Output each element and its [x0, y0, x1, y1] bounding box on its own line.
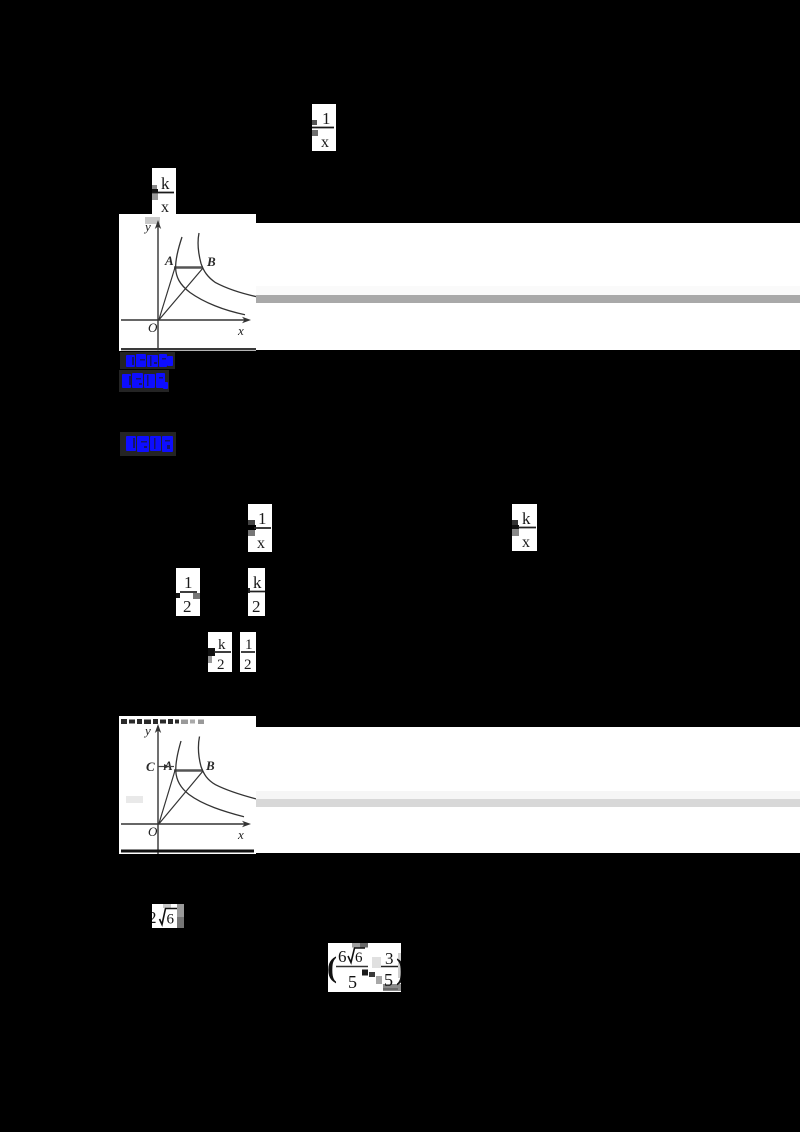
- svg-text:x: x: [237, 827, 244, 842]
- faint scan smudge: [126, 796, 143, 803]
- formula patch =1/x (middle): [248, 504, 272, 552]
- svg-text:B: B: [205, 758, 215, 773]
- gray scan mark top-left: [145, 217, 160, 224]
- segment AB: [174, 266, 203, 268]
- svg-text:x: x: [237, 323, 244, 338]
- svg-text:1: 1: [245, 637, 253, 653]
- svg-text:B: B: [206, 254, 216, 269]
- formula patch =k/x (upper-left): [152, 168, 176, 216]
- formula patch (6√6/5, 3/5): [328, 943, 401, 992]
- figure 2: graph with points A, B, C: [119, 716, 256, 854]
- svg-text:x: x: [257, 535, 265, 552]
- svg-text:A: A: [164, 253, 174, 268]
- line OB: [159, 268, 203, 320]
- line OA: [159, 268, 175, 321]
- blue line 3: [120, 432, 176, 456]
- formula patch =1/x (top): [312, 104, 336, 151]
- svg-text:x: x: [522, 534, 530, 551]
- svg-text:O: O: [148, 320, 158, 335]
- y-axis: [157, 223, 159, 351]
- segment CA: [158, 766, 174, 768]
- svg-text:6: 6: [355, 950, 363, 966]
- y-axis: [157, 727, 159, 854]
- figure bottom rule: [121, 348, 256, 350]
- figure 2 white strip (right of graph): [256, 727, 800, 853]
- gray band 2: [256, 799, 800, 807]
- svg-text:3: 3: [385, 949, 394, 968]
- line OA: [159, 771, 175, 825]
- svg-text:x: x: [321, 134, 329, 151]
- svg-text:1: 1: [184, 573, 193, 592]
- blue line 1: [120, 352, 175, 369]
- svg-text:5: 5: [348, 972, 357, 992]
- svg-text:2: 2: [217, 657, 225, 672]
- svg-text:6: 6: [338, 947, 347, 966]
- line OB: [159, 771, 203, 824]
- formula patch 1/2 (lower): [240, 632, 256, 672]
- hyperbola through B: [198, 737, 256, 799]
- formula patch 2√6: [152, 904, 184, 928]
- x-axis: [121, 319, 248, 321]
- blue line 2: [119, 370, 169, 392]
- svg-text:2: 2: [152, 908, 157, 927]
- svg-text:y: y: [143, 723, 151, 738]
- svg-text:2: 2: [183, 597, 192, 616]
- svg-text:2: 2: [252, 597, 261, 616]
- svg-text:y: y: [143, 219, 151, 234]
- figure 1: graph with hyperbolas, points A and B: [119, 214, 256, 351]
- formula patch k/2: [248, 568, 265, 616]
- small arrow mark near A: [164, 764, 169, 769]
- svg-text:): ): [396, 953, 401, 986]
- hyperbola through A: [176, 237, 245, 315]
- svg-text:k: k: [218, 637, 226, 653]
- segment AB: [174, 769, 203, 771]
- svg-text:k: k: [522, 509, 531, 528]
- figure 1 white strip (right of graph): [256, 223, 800, 350]
- hyperbola through A: [176, 741, 244, 817]
- formula patch =k/2 (lower): [208, 632, 232, 672]
- formula patch 1/2 (left): [176, 568, 200, 616]
- svg-text:5: 5: [384, 970, 393, 990]
- svg-text:2: 2: [244, 657, 252, 672]
- svg-text:C: C: [146, 759, 155, 774]
- svg-text:6: 6: [167, 912, 175, 928]
- svg-text:k: k: [253, 573, 262, 592]
- hyperbola through B: [198, 233, 256, 297]
- figure bottom rule: [121, 850, 254, 853]
- x-axis: [121, 823, 248, 825]
- svg-text:k: k: [161, 174, 170, 193]
- gray band 1: [256, 295, 800, 303]
- svg-text:(: (: [328, 951, 337, 984]
- formula patch =k/x (middle right): [512, 504, 537, 551]
- svg-text:1: 1: [258, 509, 267, 528]
- svg-text:1: 1: [322, 109, 331, 128]
- svg-text:O: O: [148, 824, 158, 839]
- clipped caption text at top: [121, 719, 204, 724]
